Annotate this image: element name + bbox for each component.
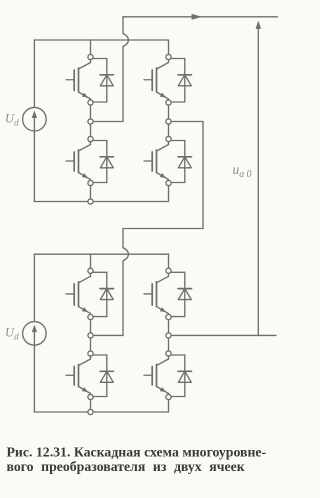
- node cell 2 right emitter upper: [166, 315, 171, 320]
- node cell 1 right collector lower: [166, 136, 171, 141]
- wire: cell 1 right leg drop from rail: [168, 40, 170, 57]
- wire: cell 2 right leg drop from rail: [168, 254, 170, 271]
- node cell 1 right emitter lower: [166, 180, 171, 185]
- transistor V21 upper-left (IGBT): [66, 271, 91, 317]
- node cell 2 left collector top: [88, 268, 93, 273]
- wire: cell 1 dc bus upper: [33, 40, 35, 108]
- svg-text:вого преобразователя из двух я: вого преобразователя из двух ячеек: [7, 459, 245, 474]
- node cell 2 left emitter lower: [88, 394, 93, 399]
- wire: cell 1 left leg bottom: [90, 183, 92, 202]
- node cell 2 right collector top: [166, 268, 171, 273]
- node cell 1 right collector top: [166, 54, 171, 59]
- wire: phase output line a (top): [123, 16, 278, 18]
- wire: cell 2 right leg middle: [168, 317, 170, 353]
- diode across V14 lower-right: [169, 141, 192, 183]
- wire: cell 1 positive rail: [34, 39, 168, 41]
- transistor V12 lower-left (IGBT): [66, 139, 91, 183]
- transistor V13 upper-right (IGBT): [144, 57, 169, 103]
- wire: cell 2 dc bus lower: [33, 345, 35, 412]
- wire: cell 1 left leg drop from rail: [90, 40, 92, 57]
- transistor V22 lower-left (IGBT): [66, 354, 91, 398]
- node cell 2 right midpoint: [166, 333, 171, 338]
- node cell 1 left emitter upper: [88, 100, 93, 105]
- transistor V24 lower-right (IGBT): [144, 354, 169, 398]
- arrow on phase output line: [192, 14, 202, 19]
- wire: cell 2 left leg middle: [90, 317, 92, 353]
- node cell 2 right collector lower: [166, 351, 171, 356]
- diode across V11 upper-left: [91, 59, 114, 103]
- node cell 2 left leg / negative rail junction: [88, 409, 93, 414]
- node cell 1 right emitter upper: [166, 100, 171, 105]
- transistor V11 upper-left (IGBT): [66, 57, 91, 103]
- wire: neutral 0 from cell 2 right midpoint: [169, 334, 277, 336]
- node cell 1 left midpoint: [88, 119, 93, 124]
- wire: cell 2 positive rail: [34, 253, 168, 255]
- transistor V23 upper-right (IGBT): [144, 271, 169, 317]
- wire: cell 1 right leg middle: [168, 103, 170, 140]
- svg-text:Рис. 12.31. Каскадная схема мн: Рис. 12.31. Каскадная схема многоуровне-: [7, 445, 267, 460]
- node cell 2 right emitter lower: [166, 394, 171, 399]
- wire: cell 1 dc bus lower: [33, 131, 35, 202]
- node cell 1 left collector top: [88, 54, 93, 59]
- wire: cell 2 left leg drop from rail: [90, 254, 92, 271]
- wire: cell 1 left midpoint up to output (hops over cell-1 rail): [91, 17, 129, 122]
- wire: series link cell1 right midpoint to cell2 left midpoint (hops over cell-2 rail): [91, 122, 204, 336]
- measurement line u_a0 with up arrow: [256, 21, 261, 335]
- voltage source Ud cell 1 (Ud): [23, 107, 47, 131]
- node cell 2 left midpoint: [88, 333, 93, 338]
- wire: cell 2 dc bus upper: [33, 254, 35, 322]
- wire: cell 1 left leg middle: [90, 103, 92, 140]
- node cell 2 left collector lower: [88, 351, 93, 356]
- diode across V12 lower-left: [91, 141, 114, 183]
- node cell 1 left collector lower: [88, 136, 93, 141]
- wire: cell 2 negative rail: [34, 397, 168, 412]
- node cell 1 left emitter lower: [88, 180, 93, 185]
- diode across V23 upper-right: [169, 272, 192, 316]
- wire: cell 1 negative rail: [34, 183, 168, 202]
- diode across V24 lower-right: [169, 355, 192, 397]
- node cell 1 right midpoint: [166, 119, 171, 124]
- transistor V14 lower-right (IGBT): [144, 139, 169, 183]
- voltage source Ud cell 2 (Ud): [23, 322, 47, 346]
- diode across V22 lower-left: [91, 355, 114, 397]
- wire: cell 2 left leg bottom: [90, 397, 92, 412]
- diode across V21 upper-left: [91, 272, 114, 316]
- diode across V13 upper-right: [169, 59, 192, 103]
- node cell 1 left leg / negative rail junction: [88, 199, 93, 204]
- node cell 2 left emitter upper: [88, 315, 93, 320]
